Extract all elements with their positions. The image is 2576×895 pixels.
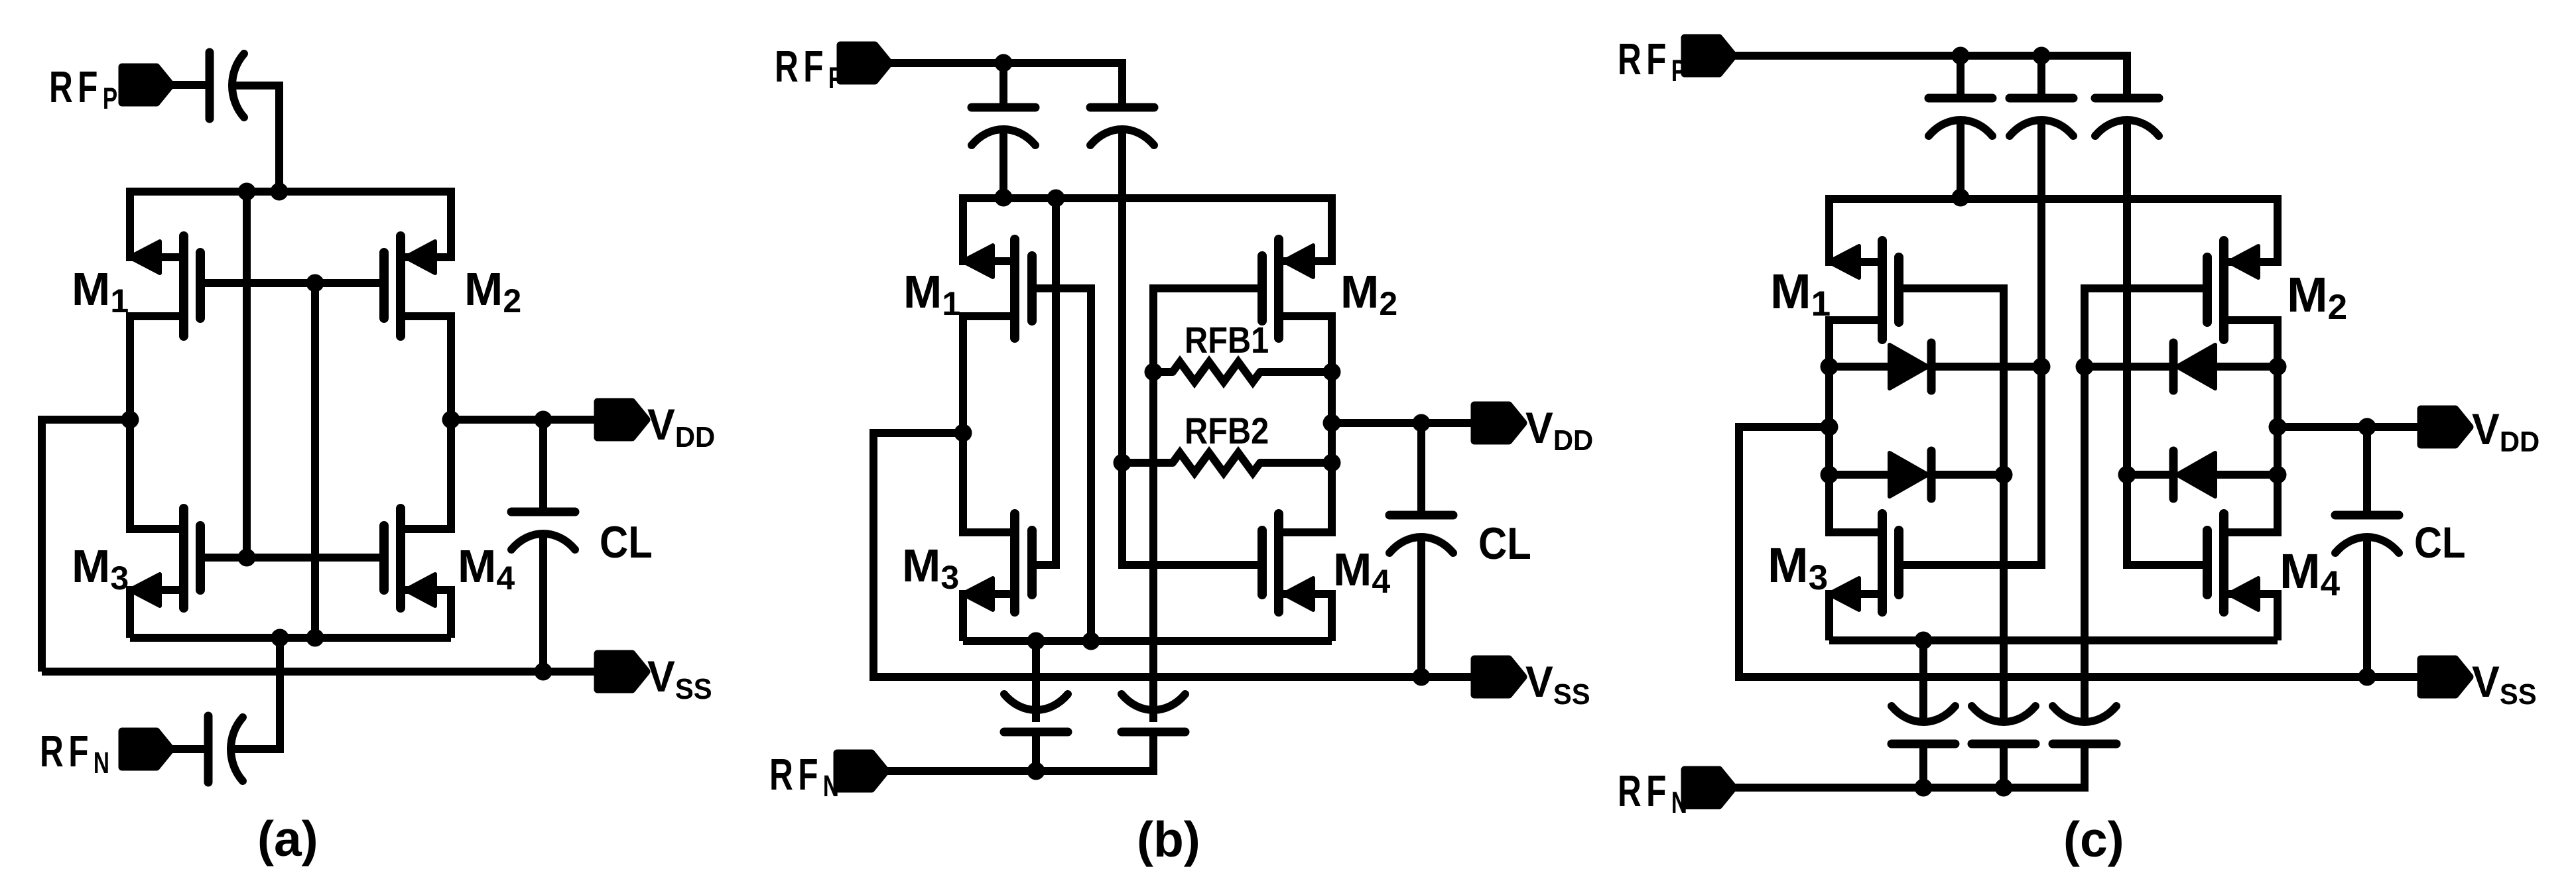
wire RF_P corner to C2 (b)	[1118, 59, 1126, 107]
capacitor C4 (b)	[1122, 728, 1185, 737]
wire M1/M3 drains (c)	[1825, 316, 1833, 536]
junction CL top (b)	[1413, 414, 1431, 432]
capacitor C1 (a)	[206, 52, 214, 119]
wire M3 source to bottom rail (c)	[1825, 590, 1833, 640]
transistor M2 (b)	[1279, 257, 1332, 265]
wire RF_N line (c)	[1734, 784, 2085, 792]
capacitor C2 (b)	[1090, 103, 1154, 112]
wire M1/M3 drains (a)	[126, 312, 134, 533]
svg-text:CL: CL	[2414, 519, 2465, 567]
wire C6 to RF_N line (c)	[2081, 744, 2089, 792]
wire M1-M2 gate row (a)	[200, 279, 384, 287]
junction CL bottom (a)	[535, 663, 552, 681]
diode D2L (c)	[1829, 471, 1890, 479]
junction C2 wire / RFB2 (b)	[1114, 454, 1131, 472]
transistor M4 (c)	[2224, 590, 2278, 598]
wire M2/M4 drains (b)	[1328, 312, 1336, 536]
wire top rail to M1 source (a)	[126, 188, 134, 261]
transistor M3 (c)	[1829, 590, 1882, 598]
junction C2 wire / bottom rail (a)	[271, 629, 289, 647]
junction C1 / top rail (b)	[995, 189, 1013, 207]
wire RF_P to C1 (a)	[171, 81, 206, 89]
wire M1 gate to C5 (c)	[2000, 284, 2008, 722]
junction CL top (a)	[535, 411, 552, 429]
wire RF_P to C1 (b)	[999, 63, 1007, 107]
port RF_N (b)	[837, 753, 886, 789]
svg-text:CL: CL	[1478, 518, 1531, 568]
svg-text:RFB1: RFB1	[1185, 320, 1269, 361]
wire top rail (c)	[1829, 195, 2278, 203]
wire RF_P to C1 (c)	[1957, 56, 1964, 98]
junction left output node (b)	[954, 424, 972, 442]
wire bottom rail (a)	[130, 634, 451, 642]
junction M1 gate wire / bottom rail (b)	[1082, 632, 1100, 650]
capacitor C1 (c)	[1929, 94, 1992, 103]
wire M2/M4 drains (c)	[2274, 316, 2282, 536]
port VSS (c)	[2421, 659, 2470, 695]
junction C1 / top rail (c)	[1952, 189, 1970, 207]
junction M2 gate column / RFB1 (b)	[1145, 363, 1163, 381]
port RF_P (b)	[840, 45, 889, 81]
junction D1L anode node (c)	[1821, 358, 1838, 376]
capacitor C3 (b)	[1004, 728, 1068, 737]
junction C1 / RF_P line (b)	[995, 54, 1013, 72]
wire C3 to RF_N line (b)	[1032, 732, 1040, 771]
port RF_N (c)	[1685, 770, 1734, 805]
wire RF_P line (b)	[889, 59, 1122, 67]
junction gate row / cross-wire B (a)	[306, 274, 324, 292]
capacitor C6 (c)	[2053, 740, 2116, 748]
wire M3 gate (c)	[1899, 561, 2041, 569]
wire CL to VSS rail (b)	[1417, 537, 1425, 676]
junction left output node (a)	[121, 411, 139, 429]
transistor M4 (b)	[1279, 590, 1332, 598]
junction CL top (c)	[2358, 418, 2376, 436]
wire top rail to M1 source (c)	[1825, 195, 1833, 266]
wire left output (c)	[1739, 423, 1829, 431]
wire M1 gate (c)	[1899, 284, 2004, 292]
junction M2 gate column / diode D1R (c)	[2076, 358, 2094, 376]
junction C1 wire / top rail (a)	[271, 183, 289, 201]
svg-text:(c): (c)	[2063, 811, 2124, 867]
transistor M3 (b)	[963, 590, 1015, 598]
junction CL bottom (b)	[1413, 668, 1431, 686]
wire C2 to M4 gate column (b)	[1118, 129, 1126, 569]
junction CL bottom (c)	[2358, 668, 2376, 686]
diode D1R (c)	[2085, 363, 2173, 371]
wire top rail to M2 source (b)	[1328, 194, 1336, 265]
capacitor C3 (c)	[2095, 94, 2159, 103]
junction M1 gate column / diode D2L (c)	[1995, 466, 2013, 484]
wire M3-M4 gate row (a)	[200, 554, 384, 562]
transistor M1 (c)	[1829, 258, 1882, 266]
junction C4 / RF_N line (c)	[1915, 779, 1933, 797]
capacitor C1 (b)	[972, 103, 1035, 112]
transistor M4 (a)	[401, 586, 451, 594]
port VDD (c)	[2421, 409, 2470, 445]
port VDD (a)	[598, 402, 647, 438]
svg-text:RFB2: RFB2	[1185, 410, 1269, 452]
junction VDD node (b)	[1323, 414, 1341, 432]
wire C1 to top rail (a)	[232, 82, 279, 89]
wire M1/M3 drains (b)	[959, 312, 967, 536]
wire CL to VSS rail (c)	[2363, 537, 2371, 677]
junction D2L anode node (c)	[1821, 466, 1838, 484]
junction C3 / RF_N line (b)	[1027, 762, 1045, 780]
capacitor C2 (c)	[2010, 94, 2073, 103]
wire M4 gate (c)	[2127, 561, 2207, 569]
wire M1 gate to bottom rail (b)	[1087, 284, 1095, 641]
diode D1L (c)	[1829, 363, 1890, 371]
transistor M2 (c)	[2224, 258, 2278, 266]
wire M4 gate (b)	[1122, 561, 1262, 569]
wire M2/M4 drains (a)	[447, 312, 455, 533]
junction C2 / RF_P line (c)	[2033, 47, 2051, 65]
port VSS (b)	[1474, 659, 1523, 695]
junction D1R cathode node (c)	[2269, 358, 2287, 376]
junction gate row / cross-wire A (a)	[238, 549, 256, 567]
transistor M3 (a)	[130, 586, 184, 594]
port VDD (b)	[1474, 405, 1523, 441]
capacitor C4 (c)	[1892, 740, 1955, 748]
wire bottom rail to C4 (c)	[1919, 640, 1927, 722]
diode D2R (c)	[2127, 471, 2173, 479]
wire cross-couple A (a)	[243, 192, 251, 558]
wire RF_N flag to C2 (a)	[171, 745, 204, 753]
capacitor CL (b)	[1417, 423, 1425, 515]
wire bottom rail (c)	[1829, 636, 2278, 644]
wire VSS rail (c)	[1739, 673, 2421, 681]
wire M2 gate (c)	[2085, 284, 2207, 292]
port RF_N (a)	[122, 731, 171, 767]
resistor RFB1 (b)	[1153, 368, 1173, 376]
wire M4 source to bottom rail (a)	[447, 586, 455, 638]
junction C1 / RF_P line (c)	[1952, 47, 1970, 65]
capacitor C2 (a)	[204, 716, 213, 782]
wire VDD node (c)	[2278, 423, 2421, 431]
junction VDD node (a)	[442, 411, 460, 429]
wire C2 to M3 gate (c)	[2037, 120, 2045, 569]
svg-text:CL: CL	[600, 516, 653, 567]
junction C4 / bottom rail (c)	[1915, 632, 1933, 650]
junction VDD node (c)	[2269, 418, 2287, 436]
svg-text:(b): (b)	[1137, 811, 1200, 867]
wire bottom rail to C3 (b)	[1032, 641, 1040, 722]
wire cross M3 gate to top rail (b)	[1052, 198, 1060, 569]
wire left output to VSS (a)	[42, 416, 130, 424]
wire RF_P line (c)	[1734, 52, 2127, 60]
junction C3 wire / diode D2R (c)	[2118, 466, 2136, 484]
junction RFB1 / M2 drain column (b)	[1323, 363, 1341, 381]
capacitor C5 (c)	[1972, 740, 2035, 748]
wire C1 to top rail (b)	[999, 129, 1007, 198]
transistor M1 (a)	[130, 253, 184, 261]
junction cross-wire B / bottom rail (a)	[306, 629, 324, 647]
wire M2 gate to C6 (c)	[2081, 284, 2089, 722]
wire C3 to M4 gate (c)	[2123, 120, 2131, 569]
wire top rail to M2 source (c)	[2274, 195, 2282, 266]
resistor RFB2 (b)	[1122, 459, 1173, 467]
wire top rail (a)	[130, 188, 451, 196]
wire VDD node (a)	[451, 416, 598, 424]
wire top rail to M1 source (b)	[959, 194, 967, 265]
wire top rail (b)	[963, 194, 1332, 202]
wire M4 source to bottom rail (c)	[2274, 590, 2282, 640]
junction RFB2 / M2 drain column (b)	[1323, 454, 1341, 472]
wire C4 to RF_N line (c)	[1919, 744, 1927, 788]
capacitor CL (c)	[2363, 427, 2371, 515]
transistor M2 (a)	[401, 253, 451, 261]
junction cross-wire A / top rail (a)	[238, 183, 256, 201]
junction C3 / bottom rail (b)	[1027, 632, 1045, 650]
junction C2 wire / diode D1L (c)	[2033, 358, 2051, 376]
junction left output node (c)	[1821, 418, 1838, 436]
wire M3 source to bottom rail (a)	[126, 586, 134, 638]
wire RF_P to C2 (c)	[2037, 56, 2045, 98]
wire cross-couple B (a)	[311, 283, 319, 638]
wire M3 source to bottom rail (b)	[959, 590, 967, 641]
junction cross-wire M3gate / top rail (b)	[1047, 190, 1065, 208]
wire VSS rail (b)	[873, 673, 1474, 681]
wire left output (b)	[873, 429, 963, 437]
wire C4 to RF_N line (b)	[1149, 732, 1157, 775]
junction C5 / RF_N line (c)	[1995, 779, 2013, 797]
wire M3 gate (b)	[1032, 561, 1056, 569]
wire C1 to top rail (c)	[1957, 120, 1964, 199]
wire bottom rail to C2 (a)	[276, 638, 284, 753]
wire top rail to M2 source (a)	[447, 188, 455, 261]
wire M2 gate (b)	[1153, 284, 1262, 292]
wire bottom rail (b)	[963, 637, 1332, 645]
wire RF_P corner to C3 (c)	[2123, 52, 2131, 98]
port VSS (a)	[598, 654, 647, 689]
junction D2R cathode node (c)	[2269, 466, 2287, 484]
wire M2 gate to C4 column (b)	[1149, 284, 1157, 722]
wire M4 source to bottom rail (b)	[1328, 590, 1336, 641]
port RF_P (c)	[1685, 38, 1734, 74]
wire C5 to RF_N line (c)	[2000, 744, 2008, 788]
wire CL to VSS rail (a)	[539, 534, 547, 672]
capacitor CL (a)	[539, 420, 547, 512]
port RF_P (a)	[122, 67, 171, 103]
svg-text:(a): (a)	[257, 811, 318, 866]
wire M1 gate (b)	[1032, 284, 1091, 292]
wire C2 to bottom rail (a)	[231, 745, 280, 753]
transistor M1 (b)	[963, 257, 1015, 265]
wire VSS rail (a)	[42, 668, 598, 676]
wire VDD node (b)	[1332, 419, 1474, 427]
wire RF_N line (b)	[886, 767, 1153, 775]
